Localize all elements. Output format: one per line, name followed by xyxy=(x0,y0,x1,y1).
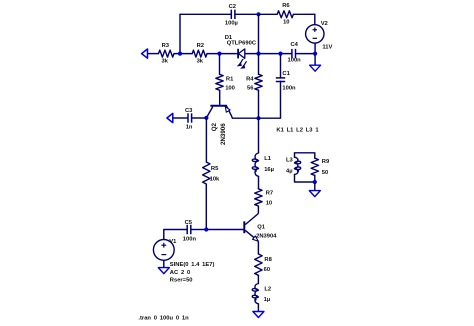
wire R4 top lead xyxy=(258,54,260,75)
svg-text:R1: R1 xyxy=(226,77,234,83)
svg-text:10k: 10k xyxy=(210,177,220,183)
resistor R8 xyxy=(255,254,273,275)
inductor L3 xyxy=(286,157,301,174)
svg-text:V1: V1 xyxy=(169,239,177,245)
port arrow at R3 xyxy=(142,49,148,58)
svg-text:L1: L1 xyxy=(264,156,272,162)
wire V1 riser xyxy=(164,230,187,240)
wire C3 to Q2 xyxy=(192,117,207,119)
transistor Q1 2N3904 xyxy=(244,214,277,242)
text tran directive xyxy=(138,316,189,322)
wire L1 top lead xyxy=(258,118,260,153)
wire junction to Q1 base xyxy=(206,229,244,231)
capacitor C1 xyxy=(276,71,296,92)
inductor L1 xyxy=(252,153,274,176)
wire C5 to junction xyxy=(191,229,207,231)
wire junction to C1 corner xyxy=(259,81,281,118)
svg-text:R9: R9 xyxy=(322,159,330,165)
svg-text:.tran 0 100u 0 1n: .tran 0 100u 0 1n xyxy=(138,316,189,322)
wire R5 bottom lead xyxy=(205,184,207,230)
voltage source V2 xyxy=(306,21,333,50)
svg-text:60: 60 xyxy=(264,267,270,273)
wire L3 top rail xyxy=(295,153,315,158)
resistor R1 xyxy=(216,74,235,91)
net directive K1 xyxy=(276,128,319,134)
capacitor C4 xyxy=(288,42,302,64)
node junction V2 bottom xyxy=(313,52,317,56)
node L3 R9 ground junction xyxy=(313,180,317,184)
svg-text:16µ: 16µ xyxy=(264,167,274,173)
wire R6 to V2 corner xyxy=(293,13,314,15)
wire junction to R6 xyxy=(259,13,278,15)
wire port to R3 xyxy=(148,53,159,55)
svg-text:10: 10 xyxy=(266,201,272,207)
svg-text:100n: 100n xyxy=(282,86,296,92)
resistor R7 xyxy=(255,189,273,207)
ground at L2 xyxy=(253,312,264,318)
wire C4 to V2 bottom xyxy=(296,53,316,55)
wire R4 bottom lead xyxy=(258,90,260,118)
node junction C1 top xyxy=(278,52,282,56)
svg-text:100n: 100n xyxy=(183,237,197,243)
wire R3 to R2 xyxy=(174,53,192,55)
text V1 params xyxy=(170,262,215,284)
wire C1 top lead xyxy=(280,54,282,78)
svg-text:100n: 100n xyxy=(288,58,302,64)
wire Q2 emitter row xyxy=(232,117,258,119)
wire R1 top lead xyxy=(219,54,221,75)
ground at V2 xyxy=(310,65,321,71)
svg-text:1n: 1n xyxy=(186,124,193,130)
capacitor C3 xyxy=(185,108,193,130)
wire L3 bottom rail xyxy=(295,175,315,183)
svg-text:K1 L1 L2 L3 1: K1 L1 L2 L3 1 xyxy=(276,128,319,134)
svg-text:R8: R8 xyxy=(264,257,272,263)
wire R8 to L2 xyxy=(257,275,259,283)
svg-text:L3: L3 xyxy=(286,158,294,164)
capacitor C5 xyxy=(183,220,197,243)
svg-text:56: 56 xyxy=(247,86,254,92)
resistor R6 xyxy=(277,3,293,25)
svg-text:SINE(0 1.4 1E7): SINE(0 1.4 1E7) xyxy=(170,262,215,268)
transistor Q2 2N3906 xyxy=(206,106,232,145)
svg-text:10: 10 xyxy=(283,19,289,25)
svg-text:R5: R5 xyxy=(211,166,219,172)
wire D1 to C4 xyxy=(245,53,292,55)
svg-text:11V: 11V xyxy=(322,45,332,51)
node top rail junction xyxy=(256,12,260,16)
svg-text:Rser=50: Rser=50 xyxy=(170,278,193,284)
wire R7 to Q1 collector xyxy=(257,206,259,214)
node Q2 collector junction xyxy=(204,116,208,120)
node junction x258.5 rail xyxy=(256,52,260,56)
svg-text:R3: R3 xyxy=(162,43,170,49)
wire drop x258.5 xyxy=(258,14,260,53)
wire Q1 emitter lead xyxy=(257,241,259,254)
svg-text:QTLP690C: QTLP690C xyxy=(227,41,257,47)
wire R1 to Q2 base xyxy=(219,90,221,105)
svg-text:C5: C5 xyxy=(185,220,193,226)
inductor L2 xyxy=(252,284,271,304)
resistor R9 xyxy=(311,158,330,176)
node junction x180 xyxy=(178,52,182,56)
svg-text:2N3906: 2N3906 xyxy=(220,123,227,145)
svg-text:100: 100 xyxy=(225,86,235,92)
svg-text:4µ: 4µ xyxy=(286,168,293,174)
svg-text:L2: L2 xyxy=(264,287,271,293)
svg-text:100µ: 100µ xyxy=(225,20,238,26)
ground at V1 xyxy=(158,268,169,274)
ground at L3 R9 xyxy=(309,191,320,197)
node C5 junction xyxy=(204,227,208,231)
wire V2 ground stub xyxy=(314,54,316,66)
svg-text:C2: C2 xyxy=(229,4,236,10)
wire R5 top lead xyxy=(205,118,207,162)
resistor R5 xyxy=(203,162,220,184)
wire L2 ground stub xyxy=(257,304,259,311)
wire top rail left segment xyxy=(180,13,231,15)
svg-text:3k: 3k xyxy=(161,59,168,65)
wire V2 top lead xyxy=(314,14,316,25)
wire V2 bottom lead xyxy=(314,43,316,54)
svg-text:Q1: Q1 xyxy=(257,224,266,230)
svg-text:V2: V2 xyxy=(321,21,328,27)
svg-text:R7: R7 xyxy=(266,191,273,197)
resistor R2 xyxy=(192,43,207,65)
diode D1 QTLP690C xyxy=(225,35,257,69)
svg-text:R2: R2 xyxy=(197,43,204,49)
port arrow at C3 xyxy=(167,113,173,122)
wire V1 ground stub xyxy=(163,260,165,267)
wire R9 ground stub xyxy=(314,182,316,191)
svg-text:C3: C3 xyxy=(185,108,193,114)
svg-text:R6: R6 xyxy=(282,3,290,9)
resistor R3 xyxy=(159,43,174,65)
node L1 top junction xyxy=(256,116,260,120)
wire R2 to D1 xyxy=(207,53,238,55)
wire port to C3 xyxy=(173,117,188,119)
svg-text:1µ: 1µ xyxy=(264,297,271,303)
wire left drop to rail xyxy=(179,14,181,54)
node junction x219.5 xyxy=(217,52,221,56)
voltage source V1 xyxy=(153,239,177,260)
svg-text:Q2: Q2 xyxy=(211,122,218,131)
svg-text:C4: C4 xyxy=(291,42,299,48)
resistor R4 xyxy=(246,74,262,91)
svg-text:2N3904: 2N3904 xyxy=(256,234,277,240)
svg-text:R4: R4 xyxy=(246,77,254,83)
svg-text:AC 2 0: AC 2 0 xyxy=(170,270,190,276)
svg-text:50: 50 xyxy=(322,170,328,176)
svg-text:C1: C1 xyxy=(282,71,290,77)
wire L1 to R7 xyxy=(258,176,260,189)
svg-text:3k: 3k xyxy=(197,59,204,65)
capacitor C2 xyxy=(225,4,238,26)
wire C2 to top junction xyxy=(235,13,259,15)
